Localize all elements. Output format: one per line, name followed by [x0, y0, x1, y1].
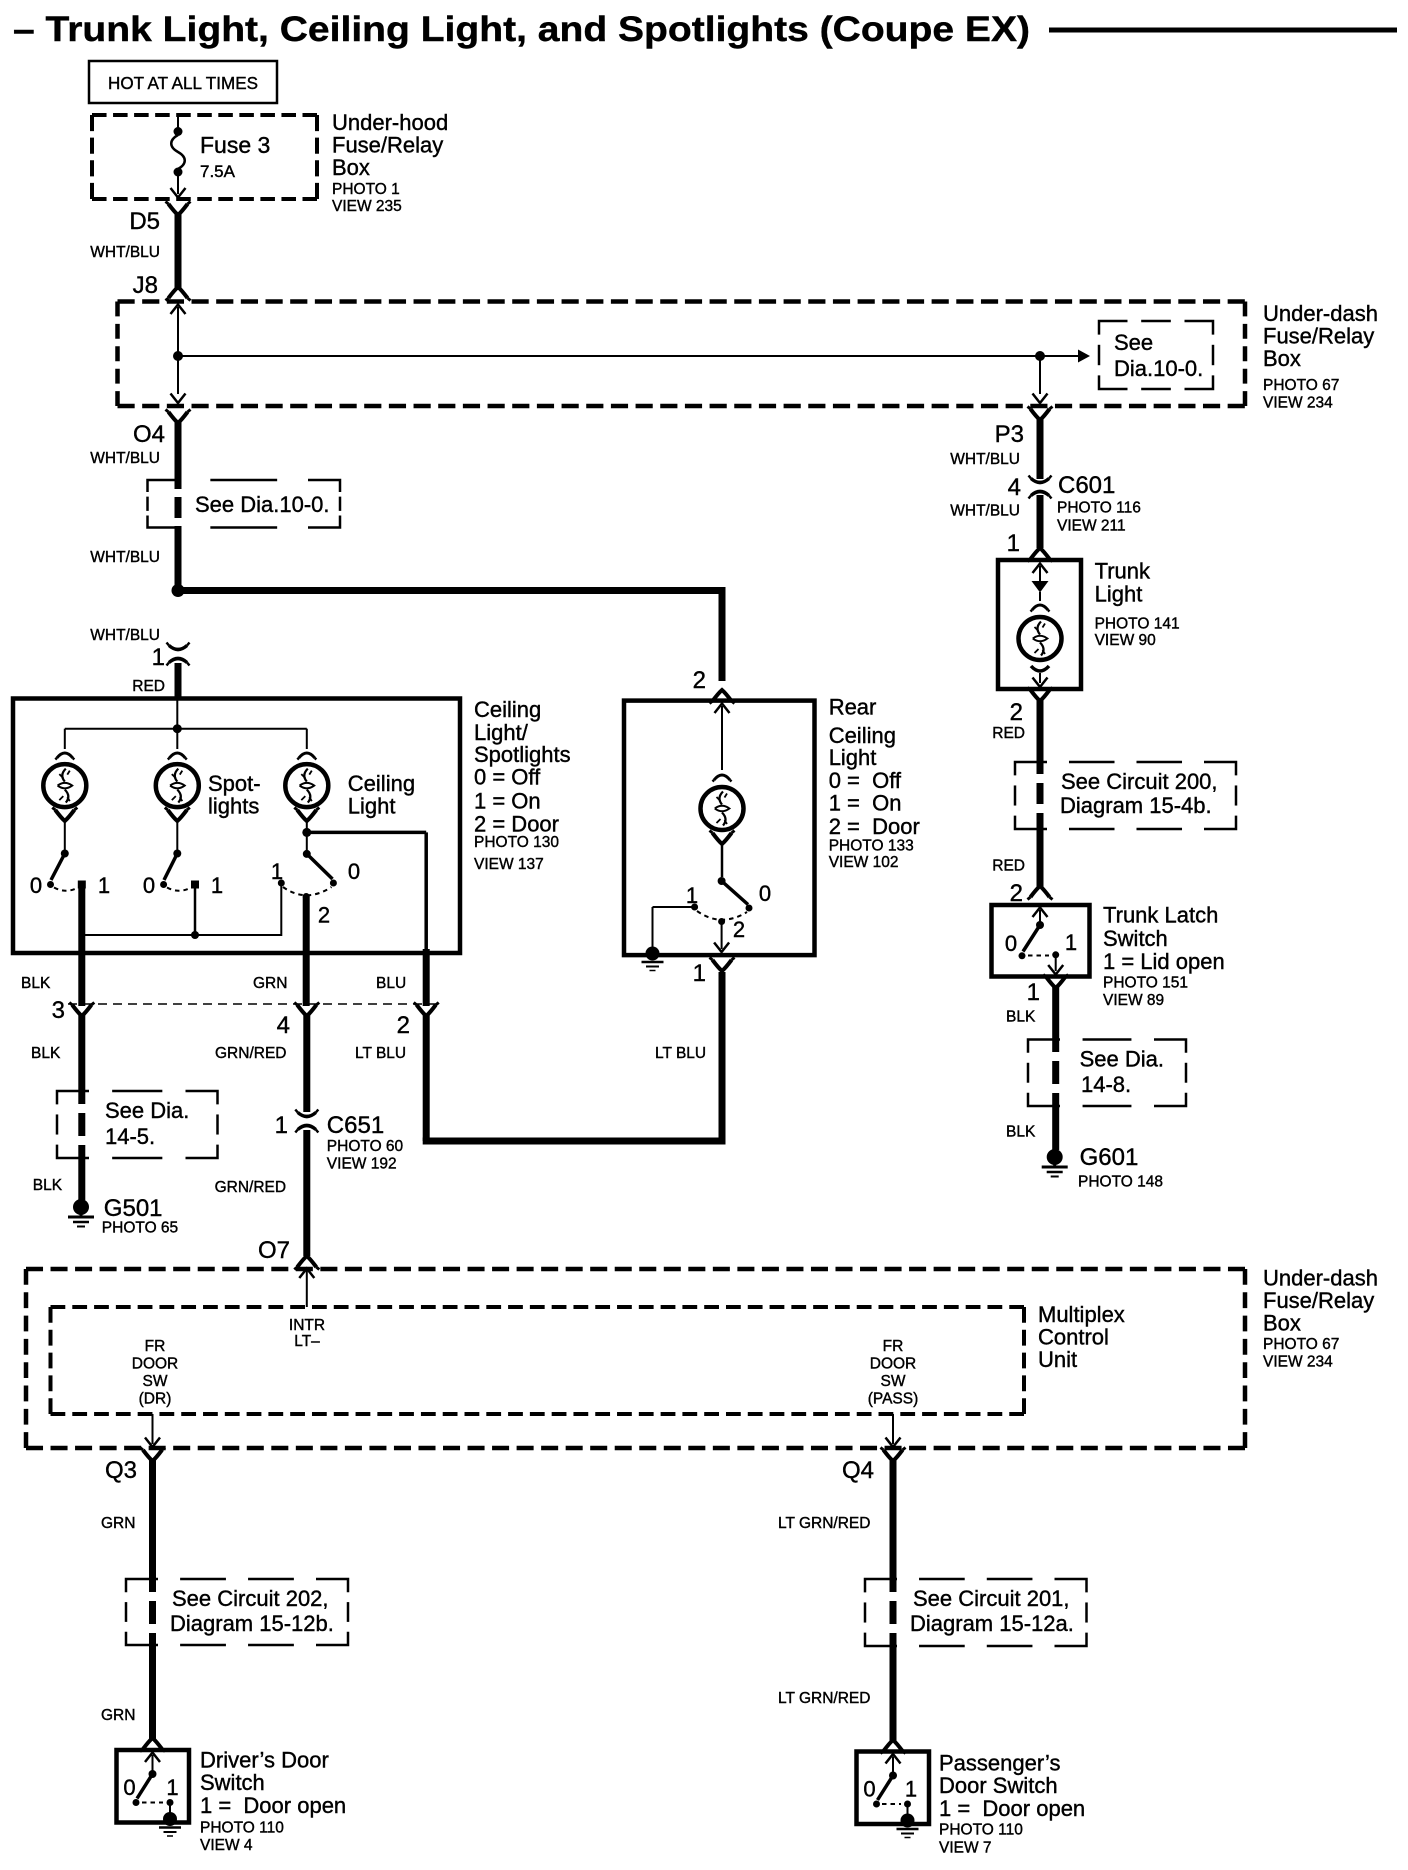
svg-text:GRN/RED: GRN/RED	[215, 1179, 286, 1196]
label LT BLU (rear)	[655, 1045, 706, 1062]
internal feed wire and junction	[65, 700, 307, 749]
wire lamp2 to switch2	[176, 820, 178, 850]
svg-text:1: 1	[905, 1777, 917, 1802]
svg-text:GRN: GRN	[253, 975, 287, 992]
svg-text:RED: RED	[992, 725, 1025, 742]
label WHT/BLU	[950, 503, 1020, 520]
wire LT GRN/RED Q4 to door switch	[889, 1460, 897, 1742]
INTR LT- output arrow to O7	[299, 1269, 314, 1308]
connector pin 2 rear ceiling (male)	[710, 690, 735, 704]
label LT GRN/RED	[778, 1515, 870, 1532]
svg-text:2: 2	[693, 667, 706, 694]
switch3 door output wire GRN	[303, 897, 310, 1007]
connector Q4 (female)	[881, 1448, 906, 1462]
svg-text:D5: D5	[129, 208, 160, 235]
reference box See Circuit 201 Diagram 15-12a	[865, 1579, 1087, 1646]
svg-text:0 = Off: 0 = Off	[829, 768, 902, 793]
reference box See Dia.10-0 (in under-dash box)	[1099, 321, 1213, 389]
label GRN/RED	[215, 1179, 286, 1196]
connector pin 1 of ceiling light (inline)	[152, 643, 190, 672]
spotlight lamp 1	[43, 764, 86, 807]
svg-text:WHT/BLU: WHT/BLU	[950, 503, 1020, 520]
ceiling lamp BLU output wire	[423, 949, 430, 1006]
reference box See Dia. 14-5	[57, 1091, 218, 1158]
ceiling lamp	[285, 764, 328, 807]
wire RED into ceiling light box	[175, 663, 182, 700]
junction below ceiling lamp to BLU branch	[302, 820, 426, 951]
labels 1/0/2 switch3	[271, 859, 360, 928]
lamp lower connectors	[52, 808, 319, 822]
wire lamp1 to switch1	[64, 820, 66, 850]
ground G501	[68, 1199, 94, 1227]
FR DOOR SW (DR) arrow to Q3	[145, 1414, 160, 1447]
svg-text:DOOR: DOOR	[132, 1356, 179, 1373]
label BLK	[1006, 1124, 1036, 1141]
svg-text:BLU: BLU	[376, 975, 406, 992]
svg-text:Diagram 15-4b.: Diagram 15-4b.	[1060, 793, 1212, 818]
label C651 / PHOTO 60 / VIEW 192	[327, 1112, 404, 1173]
lamp socket chevrons above lamps	[55, 753, 316, 760]
svg-text:2: 2	[1010, 699, 1023, 726]
svg-text:LT BLU: LT BLU	[655, 1045, 706, 1062]
svg-text:Trunk: Trunk	[1095, 559, 1151, 584]
svg-text:INTR: INTR	[289, 1317, 325, 1334]
latch switch internals	[1019, 908, 1064, 975]
under-dash fuse/relay box (top)	[118, 302, 1246, 407]
label Q3	[105, 1457, 137, 1484]
svg-text:1: 1	[1027, 979, 1040, 1006]
reference box See Circuit 200 Diagram 15-4b	[1015, 762, 1236, 829]
label RED	[992, 858, 1025, 875]
label FR DOOR SW (PASS)	[868, 1338, 919, 1408]
rear lamp socket chevron	[713, 775, 732, 782]
reference box See Circuit 202 Diagram 15-12b	[126, 1579, 348, 1645]
label LT GRN/RED	[778, 1690, 870, 1707]
svg-text:Fuse/Relay: Fuse/Relay	[1263, 324, 1374, 349]
svg-text:GRN: GRN	[101, 1707, 135, 1724]
label GRN	[101, 1707, 135, 1724]
label Ceiling Light	[348, 771, 415, 819]
connector pin 4 (female)	[277, 1003, 320, 1040]
ground G601	[1042, 1149, 1068, 1177]
wire GRN/RED C651 to O7	[303, 1130, 310, 1256]
switch 3 (ceiling light) 1/0/2	[278, 850, 337, 900]
trunk latch switch box	[992, 905, 1090, 977]
wire BLK latch to G601	[1052, 987, 1060, 1150]
svg-text:O7: O7	[258, 1237, 290, 1264]
ceiling light/spotlights unit box	[13, 699, 460, 954]
svg-text:Under-dash: Under-dash	[1263, 1266, 1378, 1291]
label FR DOOR SW (DR)	[132, 1338, 179, 1408]
passenger's door switch box	[857, 1752, 930, 1825]
svg-text:BLK: BLK	[1006, 1124, 1036, 1141]
label BLU	[376, 975, 406, 992]
label Fuse 3 / 7.5A	[200, 132, 270, 181]
connector pin 1 latch (female)	[1043, 975, 1068, 989]
svg-text:See Circuit 200,: See Circuit 200,	[1061, 769, 1218, 794]
labels 0/1 driver switch	[123, 1775, 178, 1800]
label G501 / PHOTO 65	[102, 1195, 178, 1237]
label Rear Ceiling Light legend	[829, 695, 920, 872]
svg-text:1 = On: 1 = On	[829, 791, 902, 816]
passenger switch internals	[873, 1754, 911, 1815]
svg-text:Diagram 15-12b.: Diagram 15-12b.	[170, 1611, 334, 1636]
svg-text:Driver’s Door: Driver’s Door	[200, 1748, 329, 1773]
label LT BLU	[355, 1045, 406, 1062]
svg-text:Door Switch: Door Switch	[939, 1773, 1058, 1798]
junction to P3 drop	[1035, 351, 1045, 361]
wire WHT/BLU branch to rear ceiling light	[175, 587, 723, 681]
label GRN	[101, 1515, 135, 1532]
svg-text:1: 1	[166, 1775, 178, 1800]
label BLK	[31, 1045, 61, 1062]
svg-text:1 = Door open: 1 = Door open	[939, 1796, 1085, 1821]
svg-text:Q4: Q4	[842, 1457, 874, 1484]
svg-text:Diagram 15-12a.: Diagram 15-12a.	[910, 1611, 1074, 1636]
svg-text:GRN: GRN	[101, 1515, 135, 1532]
wire WHT/BLU D5 to J8	[175, 214, 182, 290]
svg-text:Light: Light	[348, 794, 396, 819]
svg-text:1: 1	[1065, 930, 1077, 955]
svg-text:PHOTO 116: PHOTO 116	[1057, 500, 1141, 517]
svg-text:Under-hood: Under-hood	[332, 110, 448, 135]
label Multiplex Control Unit	[1038, 1302, 1125, 1372]
internal bus wire to See Dia.10-0	[178, 355, 1078, 357]
FR DOOR SW (PASS) arrow to Q4	[886, 1414, 901, 1447]
svg-text:Control: Control	[1038, 1325, 1109, 1350]
svg-text:PHOTO 130: PHOTO 130	[474, 834, 559, 851]
svg-text:C651: C651	[327, 1112, 384, 1139]
svg-text:1: 1	[1007, 530, 1020, 557]
trunk light internal feed	[1032, 564, 1049, 602]
connector pin 1 rear ceiling (female)	[710, 958, 735, 972]
label GRN	[253, 975, 287, 992]
svg-text:PHOTO 133: PHOTO 133	[829, 838, 914, 855]
svg-text:See Dia.: See Dia.	[105, 1098, 189, 1123]
svg-text:VIEW 235: VIEW 235	[332, 198, 402, 215]
svg-text:P3: P3	[995, 421, 1024, 448]
ground in driver door switch	[159, 1812, 181, 1836]
svg-text:See Circuit 202,: See Circuit 202,	[172, 1586, 329, 1611]
title rule	[1049, 28, 1397, 33]
svg-text:Ceiling: Ceiling	[474, 697, 541, 722]
svg-text:WHT/BLU: WHT/BLU	[90, 450, 160, 467]
svg-text:PHOTO 110: PHOTO 110	[939, 1822, 1023, 1839]
connector pin 3 (female)	[52, 997, 95, 1024]
svg-text:RED: RED	[132, 678, 165, 695]
wire GRN Q3 to door switch	[149, 1460, 157, 1740]
svg-text:DOOR: DOOR	[870, 1356, 917, 1373]
wire GRN/RED to C651	[303, 1015, 310, 1112]
reference box See Dia.10-0 (on wire)	[148, 480, 341, 528]
svg-text:PHOTO 1: PHOTO 1	[332, 181, 400, 198]
label GRN/RED	[215, 1045, 286, 1062]
title: Trunk Light, Ceiling Light, and Spotlights (Coupe EX)	[13, 10, 1030, 49]
svg-text:BLK: BLK	[1006, 1009, 1036, 1026]
svg-text:Light: Light	[829, 745, 877, 770]
svg-text:C601: C601	[1058, 472, 1115, 499]
svg-text:0: 0	[863, 1777, 875, 1802]
svg-text:PHOTO 67: PHOTO 67	[1263, 377, 1339, 394]
trunk lamp lower connector	[1031, 666, 1049, 687]
svg-text:LT GRN/RED: LT GRN/RED	[778, 1690, 870, 1707]
svg-text:3: 3	[52, 997, 65, 1024]
labels 0/1 switch1	[30, 873, 110, 898]
label BLK	[21, 975, 51, 992]
driver's door switch box	[117, 1750, 190, 1823]
svg-text:PHOTO 151: PHOTO 151	[1103, 975, 1188, 992]
switch1 output wire BLK	[78, 884, 85, 1006]
svg-text:1: 1	[98, 873, 110, 898]
label BLK	[1006, 1009, 1036, 1026]
svg-text:1: 1	[275, 1112, 288, 1139]
svg-text:VIEW 192: VIEW 192	[327, 1156, 397, 1173]
label Ceiling Light/Spotlights legend	[474, 697, 571, 873]
connector D5 (female)	[166, 202, 191, 216]
svg-text:VIEW 4: VIEW 4	[200, 1837, 253, 1854]
label Driver's Door Switch legend	[200, 1748, 346, 1855]
fuse F3 7.5A	[171, 117, 186, 198]
svg-text:Light: Light	[1095, 582, 1143, 607]
svg-text:0: 0	[1005, 931, 1017, 956]
junction on internal bus	[173, 351, 183, 361]
wire WHT/BLU P3 to C601	[1037, 419, 1044, 479]
svg-text:7.5A: 7.5A	[200, 162, 236, 181]
rear switch 1/0/2	[691, 877, 752, 925]
label 2 (trunk light pin)	[1010, 699, 1023, 726]
bottom tie wire switch1-switch2-switch3	[82, 883, 281, 939]
trunk lamp	[1019, 617, 1062, 660]
svg-text:GRN/RED: GRN/RED	[215, 1045, 286, 1062]
svg-text:BLK: BLK	[21, 975, 51, 992]
label WHT/BLU below O4	[90, 450, 160, 467]
svg-text:See Dia.: See Dia.	[1080, 1047, 1164, 1072]
label RED	[992, 725, 1025, 742]
svg-text:Multiplex: Multiplex	[1038, 1302, 1125, 1327]
labels 0/1 switch2	[143, 873, 223, 898]
connector C651 pin 1 (inline)	[275, 1110, 319, 1140]
label Q4	[842, 1457, 874, 1484]
svg-text:Fuse/Relay: Fuse/Relay	[1263, 1288, 1374, 1313]
label Under-hood Fuse/Relay Box	[332, 110, 448, 215]
label BLK	[33, 1177, 63, 1194]
connector Q3 (female)	[140, 1448, 165, 1462]
rear lamp lower connector	[710, 831, 735, 845]
label WHT/BLU	[90, 549, 160, 566]
connector pin 2 trunk light (female)	[1028, 688, 1053, 702]
trunk light unit box	[998, 560, 1081, 689]
svg-text:Box: Box	[1263, 346, 1301, 371]
svg-text:Trunk Latch: Trunk Latch	[1103, 903, 1218, 928]
svg-text:VIEW 102: VIEW 102	[829, 854, 899, 871]
connector O7 (male)	[294, 1256, 319, 1270]
svg-text:WHT/BLU: WHT/BLU	[90, 549, 160, 566]
svg-text:lights: lights	[208, 794, 259, 819]
label O4	[133, 421, 165, 448]
label D5	[129, 208, 160, 235]
svg-text:0 = Off: 0 = Off	[474, 765, 541, 790]
label Under-dash Fuse/Relay Box (bottom)	[1263, 1266, 1378, 1371]
label 1 (trunk light pin)	[1007, 530, 1020, 557]
labels 0/1 latch switch	[1005, 930, 1077, 956]
label Under-dash Fuse/Relay Box (top)	[1263, 301, 1378, 412]
switch 1 (spotlight) 0/1	[47, 850, 86, 891]
svg-text:2 = Door: 2 = Door	[474, 812, 559, 837]
multiplex control unit box	[51, 1307, 1025, 1414]
labels 0/1 passenger switch	[863, 1777, 917, 1802]
label 2 (rear ceiling light pin)	[693, 667, 706, 694]
label 1 (rear ceiling light pin)	[693, 960, 706, 987]
power source label HOT AT ALL TIMES	[89, 61, 277, 103]
svg-text:Rear: Rear	[829, 695, 877, 720]
label P3	[995, 421, 1024, 448]
svg-text:PHOTO 60: PHOTO 60	[327, 1138, 404, 1155]
svg-text:Spotlights: Spotlights	[474, 742, 571, 767]
svg-text:Switch: Switch	[1103, 926, 1168, 951]
connector pin 2 latch (male)	[1028, 886, 1053, 900]
svg-text:LT BLU: LT BLU	[355, 1045, 406, 1062]
wire lamp to switch	[721, 843, 724, 877]
svg-text:PHOTO 148: PHOTO 148	[1078, 1174, 1163, 1191]
svg-text:1: 1	[271, 859, 283, 884]
svg-text:See Dia.10-0.: See Dia.10-0.	[195, 492, 330, 517]
connector face dashed line	[68, 1003, 437, 1005]
label 1 (latch pin)	[1027, 979, 1040, 1006]
svg-text:1: 1	[152, 644, 165, 671]
label RED	[132, 678, 165, 695]
svg-text:Ceiling: Ceiling	[348, 771, 415, 796]
svg-text:WHT/BLU: WHT/BLU	[950, 451, 1020, 468]
svg-text:2: 2	[318, 903, 330, 928]
wire rear switch pos1 to ground	[653, 907, 695, 947]
svg-text:VIEW 211: VIEW 211	[1057, 518, 1126, 535]
wire WHT/BLU C601 to trunk light	[1037, 495, 1044, 548]
svg-text:4: 4	[277, 1012, 290, 1039]
svg-text:VIEW 89: VIEW 89	[1103, 992, 1164, 1009]
connector J8 (male)	[166, 287, 191, 301]
svg-text:VIEW 90: VIEW 90	[1095, 632, 1157, 649]
svg-text:SW: SW	[143, 1373, 168, 1390]
svg-text:VIEW 234: VIEW 234	[1263, 1354, 1333, 1371]
svg-text:Passenger’s: Passenger’s	[939, 1751, 1060, 1776]
connector C601 pin 4 (inline)	[1008, 474, 1052, 501]
svg-text:Unit: Unit	[1038, 1347, 1077, 1372]
label Passenger's Door Switch legend	[939, 1751, 1085, 1857]
label C601 / PHOTO 116 / VIEW 211	[1057, 472, 1141, 535]
label O7	[258, 1237, 290, 1264]
svg-text:See Circuit 201,: See Circuit 201,	[913, 1586, 1070, 1611]
svg-text:Dia.10-0.: Dia.10-0.	[1114, 356, 1203, 381]
svg-text:2 = Door: 2 = Door	[829, 814, 920, 839]
connector pin 1 trunk light (male)	[1028, 548, 1053, 562]
label Trunk Light / PHOTO 141 / VIEW 90	[1095, 559, 1180, 650]
label WHT/BLU	[90, 244, 160, 261]
rear ceiling lamp	[701, 787, 744, 830]
wire WHT/BLU O4 down to junction	[175, 422, 182, 590]
svg-text:Fuse 3: Fuse 3	[200, 132, 270, 158]
label WHT/BLU	[90, 627, 160, 644]
connector pin 2 (female)	[397, 1003, 439, 1040]
svg-text:FR: FR	[145, 1338, 166, 1355]
svg-text:14-8.: 14-8.	[1081, 1072, 1131, 1097]
wire LT BLU from pin2 to rear ceiling light	[423, 972, 722, 1145]
svg-text:1: 1	[211, 873, 223, 898]
wire drop to P3	[1033, 356, 1048, 403]
label Trunk Latch Switch legend	[1103, 903, 1225, 1010]
svg-text:G501: G501	[104, 1195, 163, 1222]
svg-text:PHOTO 141: PHOTO 141	[1095, 616, 1180, 633]
svg-text:1 = Door open: 1 = Door open	[200, 1793, 346, 1818]
svg-text:Fuse/Relay: Fuse/Relay	[332, 133, 443, 158]
ground in passenger door switch	[897, 1814, 919, 1838]
svg-text:0: 0	[143, 873, 155, 898]
wire rear switch pos2 to pin1	[714, 922, 729, 953]
svg-text:Q3: Q3	[105, 1457, 137, 1484]
label G601 / PHOTO 148	[1078, 1144, 1163, 1191]
svg-text:WHT/BLU: WHT/BLU	[90, 627, 160, 644]
svg-text:Box: Box	[332, 155, 370, 180]
svg-text:VIEW 137: VIEW 137	[474, 856, 544, 873]
svg-text:PHOTO 67: PHOTO 67	[1263, 1336, 1339, 1353]
label 2 (latch switch pin)	[1010, 880, 1023, 907]
svg-text:1: 1	[693, 960, 706, 987]
arrow into See Dia.10-0	[1078, 350, 1090, 363]
svg-text:HOT AT ALL TIMES: HOT AT ALL TIMES	[108, 73, 258, 93]
wire BLK to G501	[78, 1015, 86, 1200]
internal wire from pin2 to lamp	[715, 704, 730, 771]
junction to rear ceiling light branch	[172, 584, 185, 597]
svg-text:Under-dash: Under-dash	[1263, 301, 1378, 326]
label Spot-lights	[208, 771, 261, 819]
rear ceiling light unit box	[624, 701, 815, 956]
connector at driver door switch (male)	[140, 1738, 165, 1752]
svg-text:0: 0	[123, 1775, 135, 1800]
svg-text:LT GRN/RED: LT GRN/RED	[778, 1515, 870, 1532]
svg-text:FR: FR	[883, 1338, 904, 1355]
svg-text:PHOTO 65: PHOTO 65	[102, 1220, 178, 1237]
svg-text:1: 1	[686, 883, 698, 908]
trunk lamp socket chevron	[1031, 605, 1050, 612]
connector O4 (female)	[166, 410, 191, 424]
svg-text:(PASS): (PASS)	[868, 1391, 919, 1408]
svg-text:0: 0	[30, 873, 42, 898]
svg-text:RED: RED	[992, 858, 1025, 875]
svg-text:See: See	[1114, 330, 1153, 355]
wire inside under-dash box from J8 to O4	[171, 305, 186, 404]
under-dash fuse/relay box (bottom)	[26, 1269, 1245, 1448]
switch 2 (spotlight) 0/1	[160, 850, 199, 891]
svg-text:O4: O4	[133, 421, 165, 448]
svg-text:WHT/BLU: WHT/BLU	[90, 244, 160, 261]
svg-text:BLK: BLK	[31, 1045, 61, 1062]
label INTR LT-	[289, 1317, 325, 1350]
svg-text:LT–: LT–	[294, 1333, 320, 1350]
svg-text:Box: Box	[1263, 1311, 1301, 1336]
svg-text:0: 0	[348, 859, 360, 884]
svg-text:G601: G601	[1080, 1144, 1139, 1171]
svg-text:VIEW 7: VIEW 7	[939, 1840, 992, 1857]
svg-text:Spot-: Spot-	[208, 771, 261, 796]
ground in rear ceiling light	[642, 947, 664, 971]
label J8	[133, 272, 158, 299]
svg-text:14-5.: 14-5.	[105, 1124, 155, 1149]
spotlight lamp 2	[156, 764, 199, 807]
svg-text:0: 0	[759, 881, 771, 906]
svg-text:– Trunk Light, Ceiling Light,: – Trunk Light, Ceiling Light, and Spotli…	[13, 10, 1030, 49]
svg-text:Switch: Switch	[200, 1770, 265, 1795]
reference box See Dia. 14-8	[1028, 1040, 1186, 1107]
label WHT/BLU	[950, 451, 1020, 468]
